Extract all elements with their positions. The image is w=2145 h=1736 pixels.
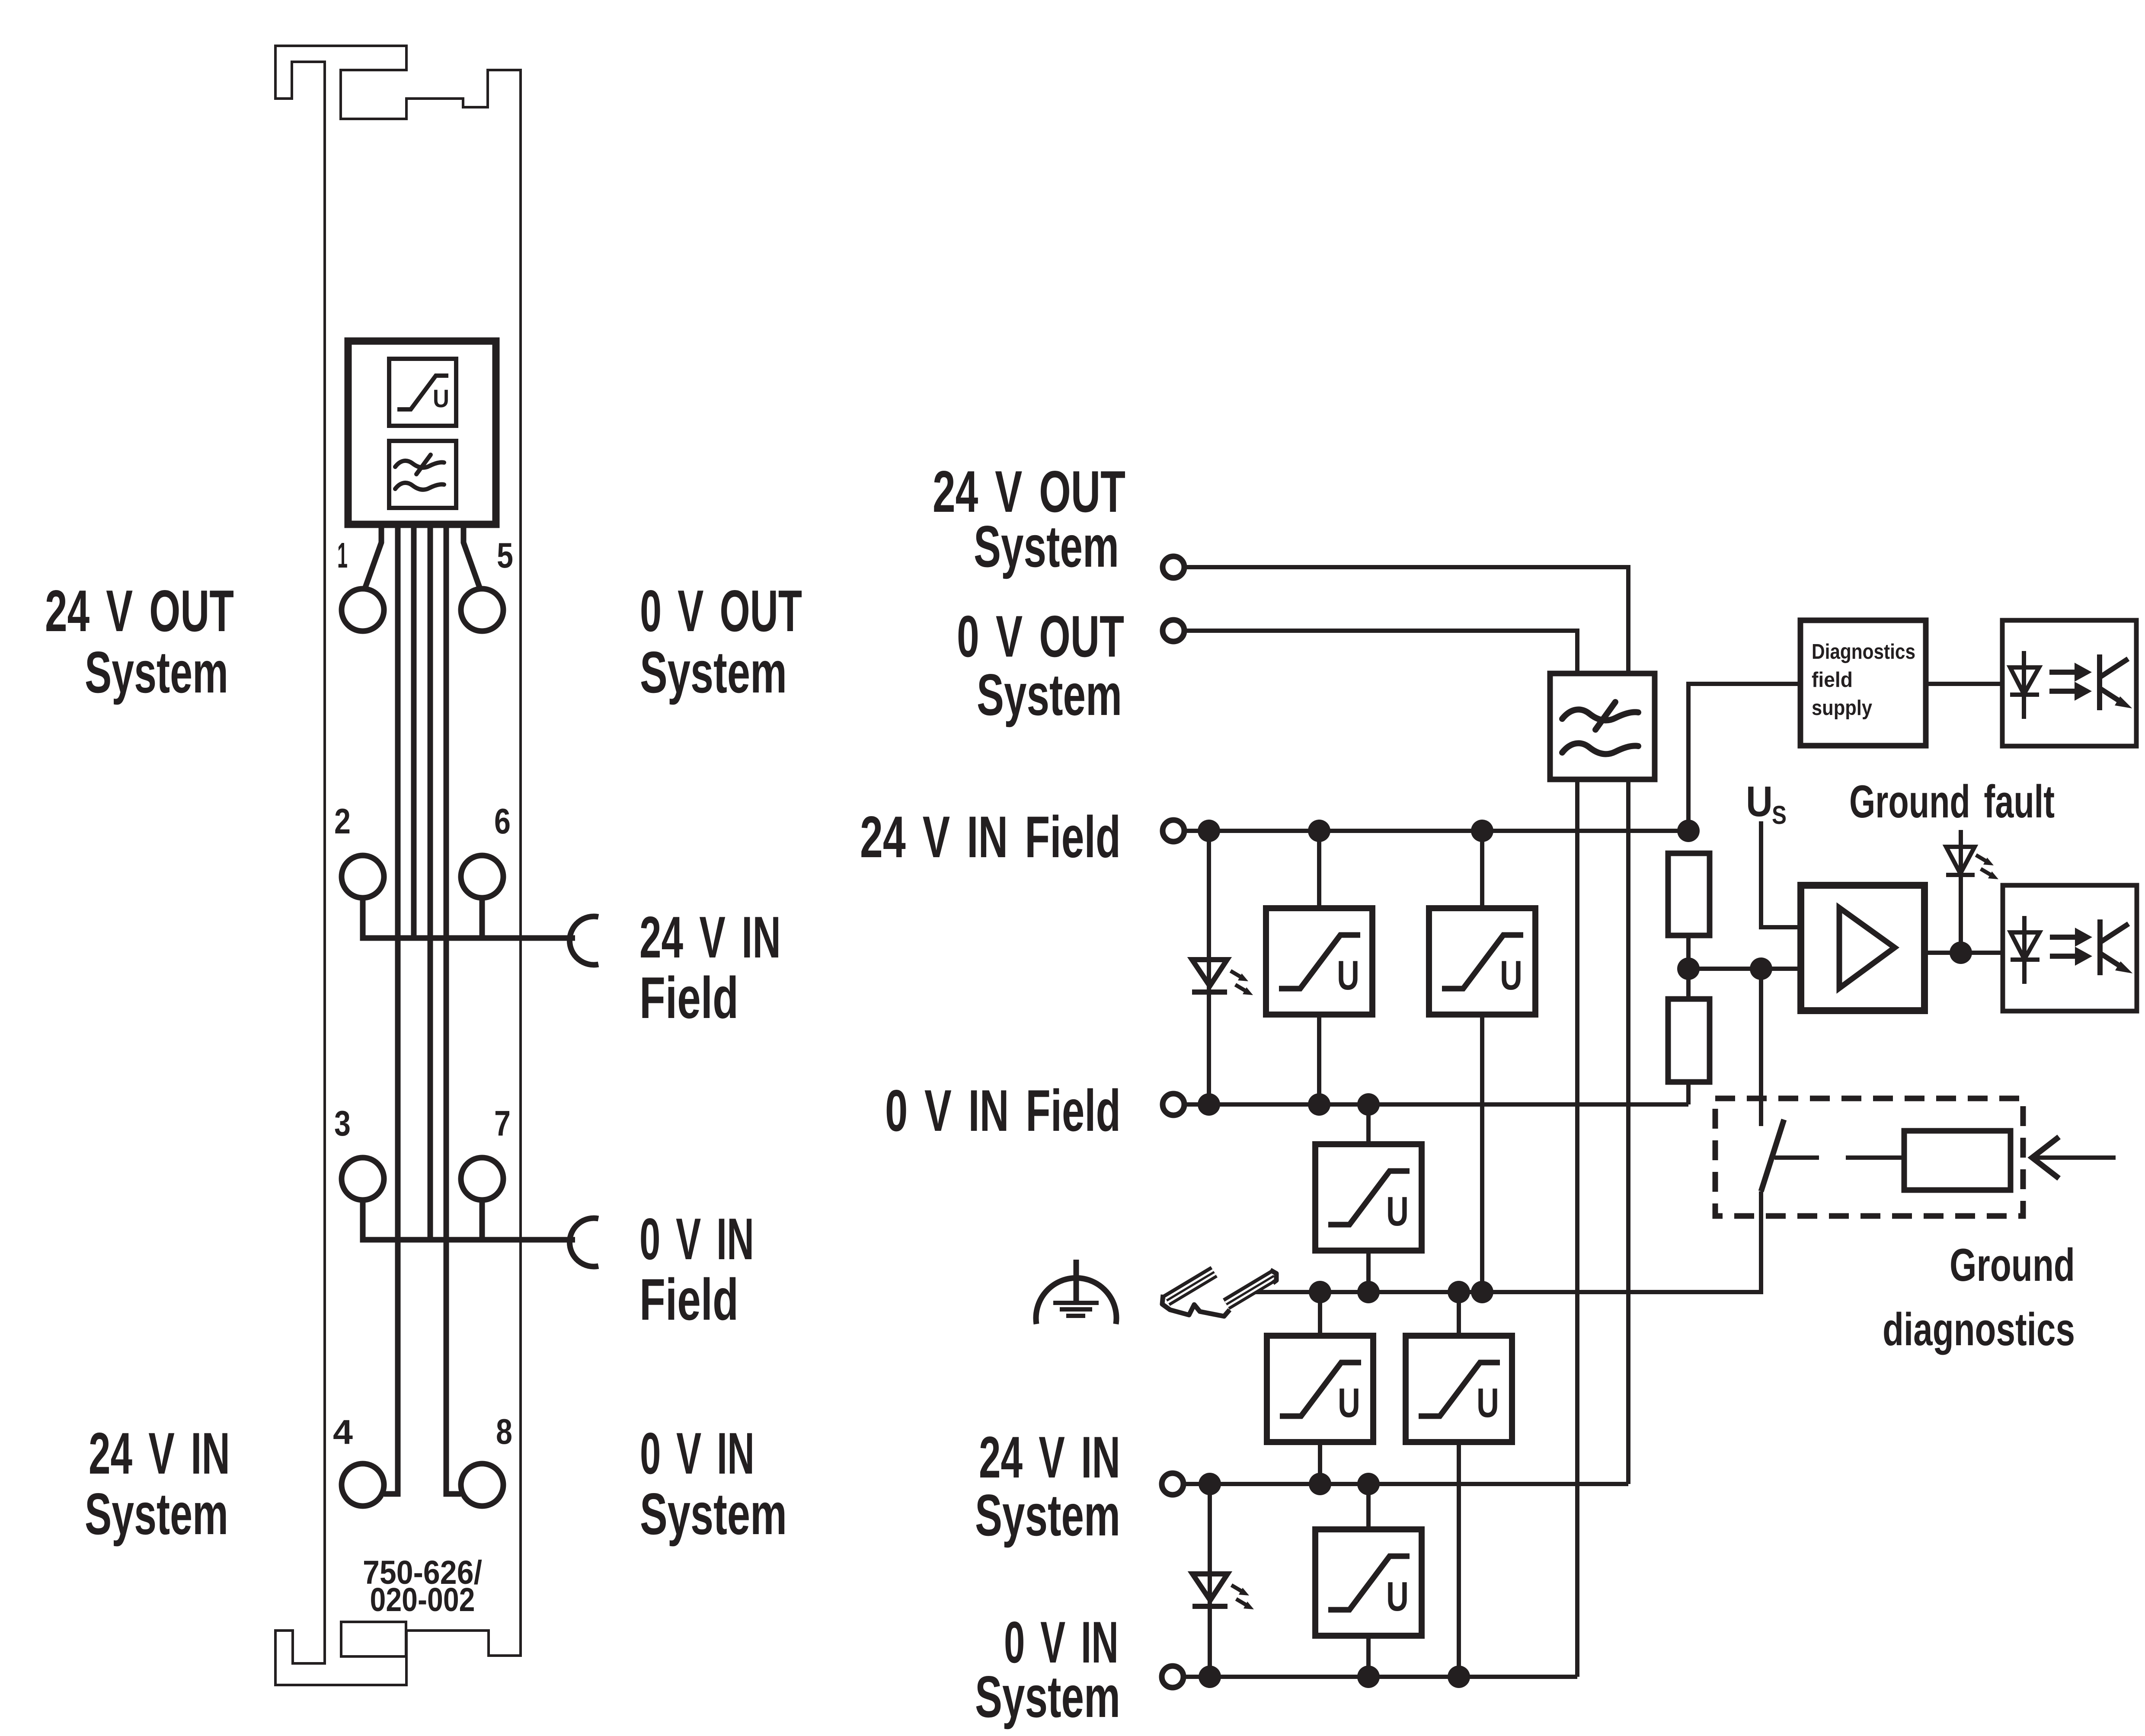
wire 24V OUT System	[1185, 567, 1628, 673]
DIN rail symbol	[1162, 1266, 1277, 1316]
filter unit box	[348, 341, 496, 524]
PE ground symbol	[1036, 1260, 1116, 1324]
svg-text:System: System	[977, 662, 1122, 728]
surge box 5 stubs	[1457, 1292, 1461, 1677]
pin circle 6	[461, 855, 503, 898]
wire bus 24V IN Field	[363, 898, 575, 938]
surge ramp symbol A	[397, 376, 448, 409]
filter slash B	[416, 455, 431, 474]
optocoupler 2 light arrows	[2050, 928, 2092, 966]
svg-text:Ground fault: Ground fault	[1849, 775, 2055, 827]
wire bus 0V IN Field	[363, 1200, 575, 1240]
LED ground fault triangle	[1946, 847, 1975, 874]
svg-text:0 V OUT: 0 V OUT	[957, 603, 1124, 669]
svg-text:24 V IN: 24 V IN	[979, 1424, 1120, 1490]
connector arc 0V IN Field	[569, 1218, 598, 1267]
terminal 24V IN Field	[1163, 820, 1184, 842]
svg-text:System: System	[85, 639, 228, 705]
optocoupler 1 box	[2002, 620, 2136, 746]
svg-text:0 V OUT: 0 V OUT	[640, 578, 802, 644]
resistor R1	[1668, 853, 1710, 935]
LED field light arrows	[1231, 971, 1253, 995]
wire stub system 0V	[446, 524, 461, 1494]
svg-text:24 V IN: 24 V IN	[639, 904, 781, 970]
svg-text:3: 3	[334, 1103, 351, 1143]
module outline	[275, 46, 521, 1685]
optocoupler 2 box	[2003, 885, 2137, 1011]
LED system bar	[1192, 1604, 1228, 1609]
pin circle 7	[461, 1158, 503, 1200]
filter wave lower B	[395, 483, 444, 490]
svg-text:U: U	[1500, 952, 1522, 999]
filter box	[1550, 673, 1655, 779]
svg-text:Field: Field	[639, 1267, 738, 1332]
connector arc 24V IN Field	[569, 916, 598, 965]
svg-text:U: U	[433, 385, 449, 413]
amplifier triangle	[1839, 908, 1895, 988]
svg-text:U: U	[1746, 777, 1773, 825]
wire ground fault LED drop	[1959, 830, 1963, 953]
svg-text:U: U	[1337, 952, 1359, 999]
wire switch drop	[1759, 969, 1763, 1126]
pin circle 1	[342, 589, 384, 631]
svg-text:Ground: Ground	[1950, 1239, 2075, 1291]
optocoupler 2 LED	[2011, 916, 2040, 984]
svg-text:24 V IN Field: 24 V IN Field	[860, 804, 1121, 870]
terminal 0V OUT System	[1163, 620, 1184, 641]
svg-text:field: field	[1812, 668, 1853, 692]
LED system triangle	[1192, 1574, 1228, 1600]
optocoupler 2 phototransistor	[2100, 919, 2129, 975]
wire bus 24V IN Field circuit	[1185, 829, 1688, 833]
svg-text:System: System	[640, 639, 787, 705]
LED ground fault light arrows	[1976, 855, 1998, 879]
ground diagnostics dashed box	[1715, 1098, 2023, 1216]
wire stub system 24V	[428, 524, 433, 1240]
svg-text:System: System	[640, 1481, 787, 1547]
optocoupler 1 phototransistor	[2100, 654, 2129, 710]
surge box 3	[1315, 1144, 1422, 1251]
pin circle 2	[342, 855, 384, 898]
ground diagnostics resistor R3	[1904, 1131, 2011, 1190]
LED system light arrows	[1231, 1585, 1254, 1609]
pin circle 4	[342, 1464, 384, 1506]
wire bus 24V IN System	[1183, 1482, 1628, 1486]
svg-text:24 V IN: 24 V IN	[89, 1420, 230, 1486]
surge box 4	[1267, 1336, 1373, 1442]
svg-text:0 V IN: 0 V IN	[640, 1420, 754, 1486]
filter wave upper	[1562, 709, 1638, 720]
ground rail wire	[1256, 1191, 1761, 1292]
wire bus 0V IN Field circuit	[1185, 1102, 1688, 1107]
wire stub to pin 1	[364, 524, 381, 590]
resistor R2	[1668, 999, 1710, 1082]
svg-text:Diagnostics: Diagnostics	[1812, 640, 1915, 664]
terminal 24V IN System	[1162, 1473, 1183, 1495]
svg-text:U: U	[1338, 1380, 1360, 1426]
junction dots	[1198, 820, 1972, 1688]
optocoupler 1 light arrows	[2049, 663, 2092, 701]
ground diagnostics arrow	[2032, 1137, 2116, 1178]
svg-text:8: 8	[496, 1411, 512, 1452]
wire amplifier output	[1924, 951, 2003, 955]
svg-text:U: U	[1386, 1573, 1409, 1620]
svg-text:System: System	[974, 514, 1119, 579]
terminal 24V OUT System	[1163, 556, 1184, 578]
svg-text:0 V IN: 0 V IN	[639, 1206, 754, 1272]
svg-text:4: 4	[333, 1413, 353, 1451]
LED field vertical	[1207, 831, 1211, 1104]
pin circle 5	[461, 589, 503, 631]
filter wave upper B	[395, 461, 444, 468]
wire 0V OUT System	[1185, 631, 1577, 673]
filter symbol box B	[389, 441, 456, 508]
wire R2 bottom	[1686, 1082, 1691, 1104]
wire stub field 24V	[384, 524, 398, 1494]
terminal 0V IN System	[1162, 1666, 1183, 1688]
LED system vertical	[1208, 1484, 1212, 1677]
svg-text:24 V OUT: 24 V OUT	[45, 578, 234, 644]
pin circle 8	[461, 1464, 503, 1506]
wire resistor tap to amplifier	[1688, 967, 1801, 971]
filter wave lower	[1562, 743, 1638, 754]
amplifier box	[1801, 885, 1924, 1011]
svg-text:U: U	[1477, 1380, 1499, 1426]
svg-text:1: 1	[337, 535, 348, 575]
wire stub field 0V	[411, 524, 417, 938]
svg-text:supply: supply	[1812, 696, 1872, 720]
wire R1 bottom to R2 top	[1686, 935, 1691, 999]
surge box 6	[1315, 1529, 1422, 1636]
svg-text:U: U	[1386, 1188, 1409, 1235]
surge protector symbol box A	[389, 359, 456, 426]
surge box 3 stubs	[1366, 1104, 1371, 1292]
filter slash	[1595, 702, 1615, 730]
svg-text:diagnostics: diagnostics	[1883, 1303, 2075, 1355]
svg-text:2: 2	[334, 801, 351, 841]
surge box 2 stubs	[1480, 831, 1484, 1292]
svg-text:System: System	[85, 1481, 228, 1547]
surge box 6 stubs	[1366, 1484, 1371, 1677]
wire bus 0V IN System	[1183, 1675, 1577, 1679]
wire Us supply	[1761, 821, 1801, 927]
svg-text:6: 6	[494, 801, 511, 841]
wire diag to opto1	[1926, 682, 2002, 686]
LED field bar	[1192, 989, 1227, 995]
wire 0V system vertical	[1575, 779, 1579, 1677]
switch blade	[1761, 1120, 1784, 1191]
svg-text:System: System	[975, 1482, 1120, 1548]
pin circle 3	[342, 1158, 384, 1200]
surge box 4 stubs	[1318, 1292, 1322, 1484]
svg-text:S: S	[1772, 801, 1787, 830]
surge box 2	[1429, 908, 1535, 1015]
surge box 1 stubs	[1317, 831, 1321, 1104]
svg-text:7: 7	[494, 1103, 511, 1143]
terminal 0V IN Field	[1163, 1094, 1184, 1115]
wire diagnostics supply	[1688, 684, 1800, 831]
surge box 5	[1406, 1336, 1512, 1442]
wire stub to pin 5	[464, 524, 480, 590]
svg-text:System: System	[975, 1664, 1120, 1730]
module bottom tab	[341, 1622, 406, 1656]
diagnostics field supply box	[1800, 620, 1926, 746]
svg-text:5: 5	[497, 535, 513, 575]
svg-text:Field: Field	[639, 965, 738, 1031]
surge box 1	[1266, 908, 1372, 1015]
wire 24V system vertical	[1626, 779, 1630, 1484]
svg-text:020-002: 020-002	[370, 1581, 475, 1618]
LED field triangle	[1192, 960, 1227, 986]
LED ground fault bar	[1946, 873, 1975, 877]
optocoupler 1 LED	[2010, 651, 2039, 719]
svg-text:0 V IN Field: 0 V IN Field	[885, 1078, 1121, 1143]
switch contact segments	[1774, 1155, 1904, 1160]
